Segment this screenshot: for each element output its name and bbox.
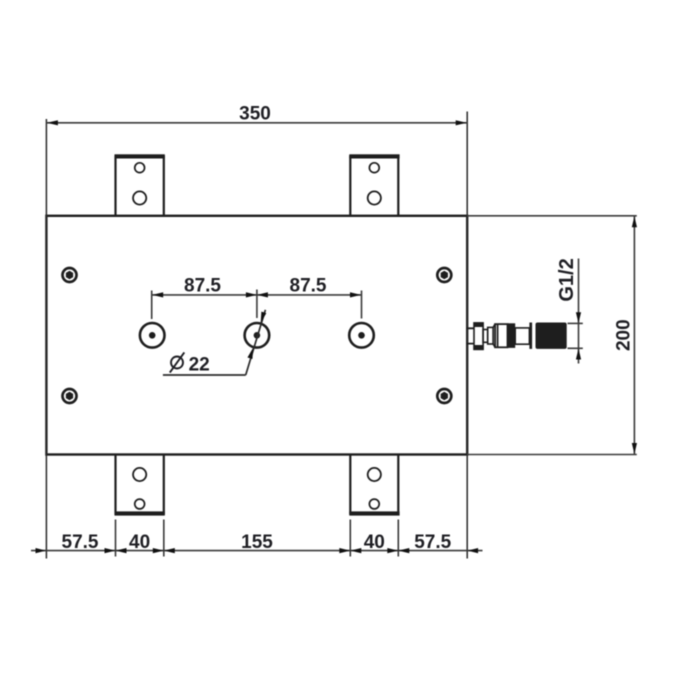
dimension 87.5 right	[246, 276, 362, 319]
G1/2 connector assembly	[467, 322, 567, 349]
svg-text:57.5: 57.5	[62, 532, 99, 553]
dimension 200 right	[467, 216, 637, 455]
bottom-left mounting tab	[115, 455, 165, 516]
connector spacer cylinder	[515, 328, 529, 344]
connector inlet stub	[467, 328, 474, 343]
diameter leader Ø22	[163, 310, 266, 375]
connector knurled ring	[508, 323, 516, 348]
right edge extension line	[466, 112, 468, 559]
connector hex flange	[474, 323, 483, 350]
svg-text:87.5: 87.5	[290, 276, 327, 297]
connector body rim	[529, 323, 532, 349]
corner screw bottom-right	[437, 389, 451, 403]
connector neck	[483, 330, 488, 343]
hole left Ø22	[140, 323, 165, 348]
hole right Ø22	[349, 323, 374, 348]
top-right mounting tab	[349, 154, 399, 216]
svg-text:22: 22	[189, 354, 210, 375]
svg-text:57.5: 57.5	[414, 532, 451, 553]
dimension 350 top	[46, 103, 467, 125]
dimension G1/2	[556, 258, 583, 363]
connector step collar	[488, 327, 493, 344]
svg-text:87.5: 87.5	[184, 276, 221, 297]
svg-text:200: 200	[614, 319, 635, 351]
svg-text:155: 155	[241, 532, 273, 553]
dimension 87.5 left	[152, 276, 257, 319]
svg-text:G1/2: G1/2	[556, 258, 578, 301]
svg-text:40: 40	[129, 532, 150, 553]
svg-text:40: 40	[364, 532, 385, 553]
corner screw top-right	[437, 268, 451, 282]
connector G1/2 coupler body	[536, 323, 567, 349]
corner screw top-left	[63, 268, 77, 282]
top-left mounting tab	[115, 154, 165, 216]
body outline plate	[46, 216, 467, 455]
bottom-right mounting tab	[349, 455, 399, 516]
hole middle Ø22	[245, 323, 270, 348]
svg-text:350: 350	[239, 103, 271, 124]
dimension chain bottom	[31, 520, 483, 557]
corner screw bottom-left	[63, 389, 77, 403]
left edge extension line	[45, 119, 47, 559]
connector sleeve cylinder	[495, 324, 507, 347]
